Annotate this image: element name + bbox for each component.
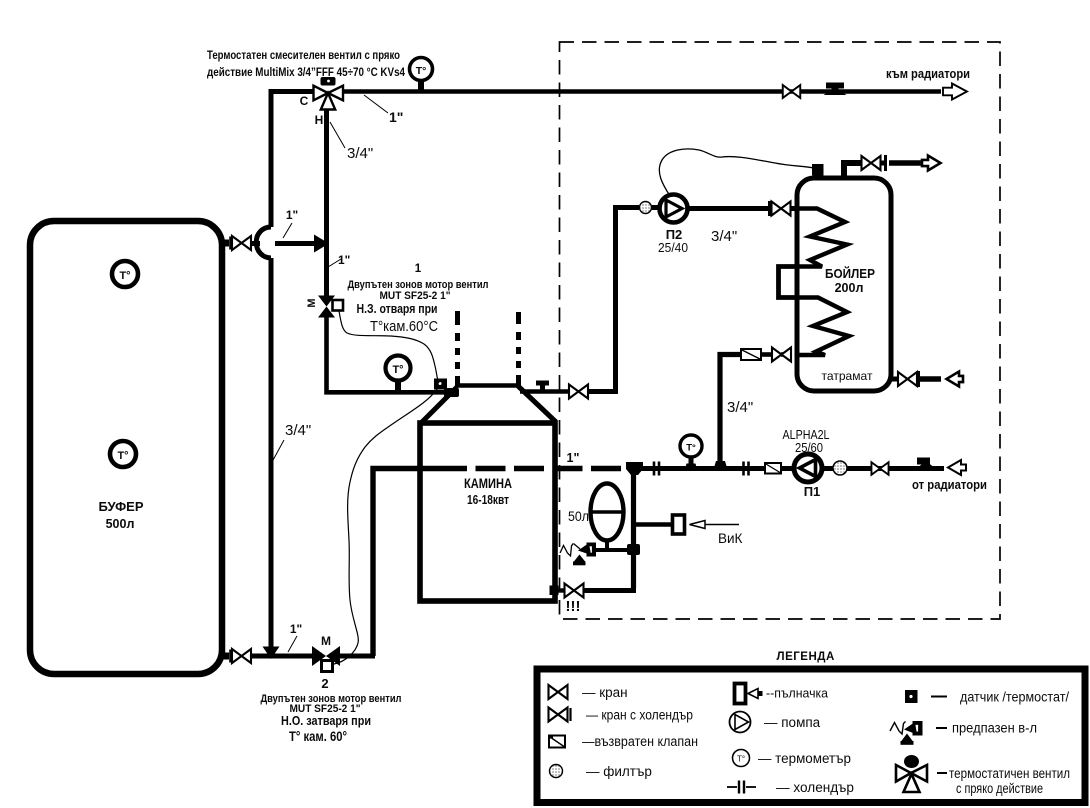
fireplace hood right slant <box>518 386 556 422</box>
wire boiler coil return: valve to check valve <box>781 352 790 357</box>
legend box <box>537 669 1085 803</box>
svg-text:предпазен в-л: предпазен в-л <box>952 721 1037 736</box>
svg-text:1": 1" <box>389 109 403 125</box>
wire vertical from mixing valve C down-left leg <box>271 92 314 228</box>
legend thermometer symbol <box>733 750 750 767</box>
svg-text:татрамат: татрамат <box>822 369 873 383</box>
union stub after valve <box>881 161 884 166</box>
union right of riser <box>742 462 745 476</box>
wire boiler top hot water outlet <box>844 163 862 178</box>
svg-text:25/40: 25/40 <box>658 240 688 255</box>
svg-text:П1: П1 <box>804 484 821 499</box>
wire tank top to tee <box>251 241 260 246</box>
wire check valve to riser elbow <box>720 355 741 463</box>
svg-text:действие MultiMix 3/4”FFF 45÷7: действие MultiMix 3/4”FFF 45÷70 °C KVs4 <box>207 65 405 79</box>
safety valve предпазен в-л <box>560 543 596 566</box>
svg-text:Т°кам.60°С: Т°кам.60°С <box>370 318 438 335</box>
svg-text:Т°: Т° <box>117 450 128 462</box>
svg-text:— помпа: — помпа <box>764 715 821 730</box>
wire П2 riser top horizontal <box>613 205 639 210</box>
node tee vessel line <box>627 544 640 555</box>
valve at boiler coil inlet <box>772 202 791 216</box>
wire vertical 3/4 long left line <box>269 258 274 648</box>
union bar at tank top valve <box>229 237 232 250</box>
node tee at 50l branch <box>626 462 643 475</box>
valve on supply line <box>783 85 800 98</box>
thermometer T1 on tank <box>112 261 138 287</box>
svg-text:с пряко действие: с пряко действие <box>956 781 1043 796</box>
pipe hop (bridge) on vertical line <box>256 227 271 258</box>
svg-text:БУФЕР: БУФЕР <box>99 500 144 514</box>
thermometer near fireplace inlet <box>386 356 411 393</box>
svg-text:Т°: Т° <box>686 443 696 454</box>
svg-text:—възвратен клапан: —възвратен клапан <box>582 734 698 749</box>
wire M2 to fireplace riser <box>340 654 375 659</box>
dashed boundary box <box>560 42 1001 619</box>
svg-text:3/4": 3/4" <box>285 422 311 439</box>
arrow hot water out <box>922 156 941 171</box>
legend check valve symbol <box>549 736 565 748</box>
arrow to radiators <box>943 84 967 100</box>
svg-text:1": 1" <box>290 622 302 636</box>
svg-text:16-18квт: 16-18квт <box>467 493 509 507</box>
wire boiler bottom right cold inlet <box>891 377 899 382</box>
svg-text:— кран: — кран <box>582 685 628 700</box>
wire pump П2 to boiler <box>687 206 768 211</box>
wire mixing valve H riser <box>324 109 329 296</box>
thermometer T2 on tank <box>110 441 136 467</box>
boiler thermostat sensor <box>812 164 824 176</box>
svg-text:Т°: Т° <box>416 65 427 77</box>
wire safety valve line to tee <box>595 548 633 552</box>
filling valve пълначка <box>673 515 685 534</box>
svg-text:термостатичен вентил: термостатичен вентил <box>949 766 1070 781</box>
wire tank bottom outlet stub <box>219 653 229 660</box>
wire filter to pump <box>652 205 660 210</box>
svg-text:3/4": 3/4" <box>347 145 373 162</box>
svg-text:Н.З. отваря при: Н.З. отваря при <box>357 301 438 316</box>
wire dashed 1 inch fireplace line solid part <box>373 469 437 657</box>
wire tank top outlet stub <box>219 240 229 247</box>
thermometer on return line <box>680 435 702 471</box>
svg-text:25/60: 25/60 <box>795 440 823 455</box>
svg-text:към радиатори: към радиатори <box>886 66 970 81</box>
sensor tee on return line <box>914 458 939 472</box>
boiler БОЙЛЕР <box>797 178 891 391</box>
chimney dashed right <box>516 312 521 386</box>
wire drain valve to fireplace <box>556 588 565 592</box>
legend pump symbol <box>730 712 751 733</box>
svg-text:Н: Н <box>315 113 324 127</box>
svg-text:500л: 500л <box>106 517 135 531</box>
wire tank bottom to M2 <box>251 654 313 659</box>
wire return line from radiators <box>633 466 944 471</box>
wire dashed 1 inch fireplace line dashes <box>437 466 626 471</box>
fireplace body КАМИНА <box>420 423 555 601</box>
filter before П2 <box>640 202 652 214</box>
wire fireplace outlet to П2 riser <box>520 389 569 394</box>
svg-text:1": 1" <box>567 451 580 465</box>
legend sensor symbol <box>905 690 918 703</box>
wire 50l bottom elbow to fireplace <box>584 588 634 591</box>
svg-text:Т°: Т° <box>737 755 745 764</box>
sensor tee on supply line <box>824 83 847 96</box>
union bar at tank bottom valve <box>229 650 232 663</box>
cable M2 to fireplace sensor <box>334 388 438 664</box>
wire cold inlet segment <box>920 376 941 381</box>
valve on cold inlet <box>898 372 917 386</box>
svg-text:датчик /термостат/: датчик /термостат/ <box>960 690 1069 705</box>
wire top supply pipe to radiators <box>343 89 941 94</box>
boiler coil outside loop <box>779 267 798 298</box>
legend valve symbol <box>549 685 568 699</box>
svg-text:ВиК: ВиК <box>718 531 743 546</box>
wire hot water out segment <box>889 160 921 165</box>
svg-text:ЛЕГЕНДА: ЛЕГЕНДА <box>777 651 836 663</box>
fireplace hood trapezoid left slant <box>420 387 457 424</box>
node tee at boiler riser <box>713 461 728 471</box>
svg-text:3/4": 3/4" <box>727 399 753 416</box>
svg-text:2: 2 <box>321 676 328 691</box>
check valve on coil return <box>741 349 761 360</box>
svg-text:Т°: Т° <box>119 270 130 282</box>
wire M1 to fireplace elbow <box>327 317 453 392</box>
svg-text:--пълначка: --пълначка <box>766 686 829 701</box>
svg-text:1: 1 <box>415 263 422 275</box>
chimney dashed left <box>455 311 460 386</box>
svg-text:1": 1" <box>286 208 298 222</box>
svg-text:от радиатори: от радиатори <box>912 477 987 492</box>
legend thermostatic valve symbol <box>896 755 927 792</box>
thermostatic mixing valve MultiMix <box>314 77 344 110</box>
union bar before boiler valve <box>768 201 771 216</box>
legend valve with union symbol <box>549 708 568 722</box>
wire valve to boiler <box>790 206 799 211</box>
pump П2 <box>660 195 688 223</box>
svg-text:50л: 50л <box>568 508 589 524</box>
svg-text:Н.О. затваря при: Н.О. затваря при <box>281 713 371 728</box>
boiler lower coil <box>797 298 849 356</box>
legend safety valve symbol <box>890 721 923 745</box>
buffer tank БУФЕР <box>30 221 222 674</box>
boiler upper coil <box>797 209 847 267</box>
valve on fireplace drain <box>565 584 584 598</box>
thermometer on supply <box>410 58 433 92</box>
svg-text:— кран с холендър: — кран с холендър <box>586 708 693 723</box>
union on return line left <box>653 462 656 476</box>
svg-text:Т°: Т° <box>392 364 403 376</box>
svg-text:— холендър: — холендър <box>776 780 854 795</box>
filter on return line <box>833 461 847 475</box>
node tee at mixing riser <box>314 235 329 253</box>
node tee at left vertical line <box>263 647 280 660</box>
valve at boiler coil return <box>772 348 791 362</box>
sensor tee on fireplace outlet <box>536 381 549 392</box>
arrow cold water in <box>947 372 964 387</box>
node square at fireplace edge <box>550 586 559 596</box>
union bar cold inlet <box>917 371 920 387</box>
svg-text:БОЙЛЕР: БОЙЛЕР <box>825 266 875 281</box>
svg-text:Термостатен смесителен вентил: Термостатен смесителен вентил с пряко <box>207 48 400 62</box>
valve on return line <box>871 462 888 475</box>
arrow from radiators <box>948 460 966 475</box>
svg-text:— термометър: — термометър <box>758 751 851 766</box>
svg-text:— филтър: — филтър <box>586 764 652 779</box>
motor valve M1 (MUT SF25-2) <box>306 296 343 318</box>
wire between check valve and valve <box>762 352 772 357</box>
motor valve M2 (MUT SF25-2) <box>312 634 340 672</box>
pump П1 <box>794 454 822 482</box>
arrow ВиК <box>690 521 740 529</box>
svg-text:КАМИНА: КАМИНА <box>464 476 512 491</box>
check valve on return line <box>765 463 781 474</box>
valve on fireplace outlet <box>569 385 588 399</box>
svg-text:3/4": 3/4" <box>711 228 737 245</box>
legend filter symbol <box>550 765 563 778</box>
svg-text:Т° кам. 60°: Т° кам. 60° <box>289 729 347 744</box>
svg-text:М: М <box>306 298 318 307</box>
legend union symbol <box>727 781 756 794</box>
wire 50l vertical <box>631 470 636 588</box>
svg-text:С: С <box>300 94 309 108</box>
cable M1 to fireplace sensor <box>339 311 439 383</box>
expansion vessel 50л <box>591 484 624 551</box>
svg-text:М: М <box>321 634 331 648</box>
fireplace hood top <box>455 383 519 387</box>
wire elbow up П2 riser <box>588 210 616 392</box>
svg-text:!!!: !!! <box>566 598 581 615</box>
wire ВиК branch <box>633 522 673 526</box>
node tee at fireplace inlet <box>444 388 459 397</box>
sensor on fireplace inlet pipe <box>434 379 447 390</box>
valve on boiler top outlet <box>862 156 881 170</box>
valve tank bottom <box>232 649 251 663</box>
legend filling valve symbol <box>735 684 746 704</box>
valve tank top (кран с холендър) <box>232 236 251 250</box>
cable П2 pump to boiler thermostat <box>659 149 814 196</box>
svg-text:200л: 200л <box>835 281 864 295</box>
